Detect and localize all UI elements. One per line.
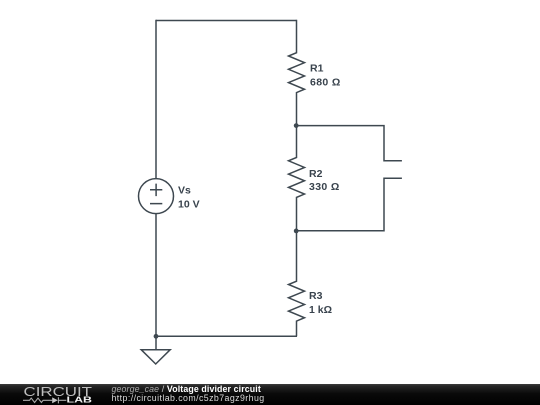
svg-text:680 Ω: 680 Ω	[310, 76, 341, 88]
svg-text:LAB: LAB	[67, 395, 93, 405]
svg-text:R2: R2	[309, 168, 323, 180]
svg-text:http://circuitlab.com/c5zb7agz: http://circuitlab.com/c5zb7agz9rhug	[112, 393, 265, 403]
svg-text:10 V: 10 V	[178, 199, 200, 211]
svg-text:R1: R1	[310, 62, 324, 74]
svg-text:Vs: Vs	[178, 185, 191, 197]
svg-text:1 kΩ: 1 kΩ	[309, 304, 332, 316]
svg-text:R3: R3	[309, 290, 323, 302]
svg-text:330 Ω: 330 Ω	[309, 181, 340, 193]
